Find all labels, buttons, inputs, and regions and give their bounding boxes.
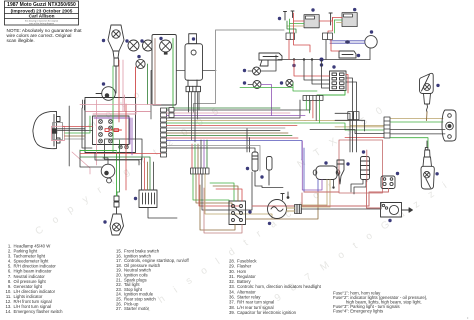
speedometer 4 (96, 87, 115, 101)
speedometer marker dot (102, 82, 105, 85)
wires from connector blocks down to bus (288, 40, 290, 60)
red plug lead vertical (366, 150, 368, 182)
lamp 2 parking light in emergency box (160, 40, 172, 54)
wire from box 33 bottom loop (148, 208, 177, 219)
instrument cluster box (85, 98, 136, 153)
wire red below cluster (80, 153, 161, 155)
svg-text:39.: 39. (229, 310, 235, 315)
wire dark green below cluster (80, 157, 150, 190)
svg-text:14.: 14. (6, 309, 12, 314)
ignition switch 16 box (229, 201, 246, 225)
purple wire from lamp2 (261, 85, 272, 116)
wire red vertical through cluster (125, 104, 127, 190)
headlamp connector block (53, 123, 63, 140)
purple wires to module (302, 141, 322, 190)
wires upper right region (272, 115, 306, 117)
wire from lamp1 right then down (261, 55, 277, 71)
wire pink vertical (122, 60, 124, 112)
pink box around plug (52, 126, 65, 140)
R/H rear turn signal 37 (420, 73, 434, 112)
rear stop switch plug 25 (339, 51, 356, 58)
wire pink verticals cluster (96, 100, 98, 165)
right connector strip (384, 117, 390, 138)
gray wire big run (194, 30, 285, 112)
wire pink diagonal lower (72, 152, 90, 174)
ground stub (287, 192, 289, 197)
connector plug top middle (259, 53, 282, 66)
squiggle lead down (426, 112, 429, 121)
L/H rear turn signal 38 (421, 141, 434, 189)
wire lamp stubs (248, 70, 253, 72)
wires dropping from controls connector (188, 92, 190, 112)
svg-text:Fuse“4”: Emergency lights: Fuse“4”: Emergency lights (333, 309, 383, 314)
drops to lower connector (191, 144, 193, 168)
indicator lamp panel (93, 116, 130, 145)
wire dark around cluster left (82, 108, 92, 148)
wires into ignition switch top (210, 183, 234, 201)
horn relay (left) (304, 15, 319, 28)
ignition module 24 (313, 166, 340, 180)
wire dark mid low (167, 148, 256, 152)
wires into horn relay (294, 20, 305, 22)
pink wire (86, 111, 150, 113)
starter relay 36 (381, 176, 395, 189)
starter motor 27 (381, 203, 413, 218)
cluster lower nested box (105, 139, 143, 160)
watermark (34, 87, 453, 315)
svg-text:1987 Moto Guzzi NTX350/650: 1987 Moto Guzzi NTX350/650 (7, 2, 76, 8)
relay terminal stubs (284, 11, 295, 20)
wires into relay 2 (333, 17, 343, 19)
alternator wires (287, 207, 295, 209)
lower horizontal connector strip (191, 168, 210, 174)
front brake switch 15 (key shape, top left) (108, 25, 124, 93)
loop wires around ignition switch (200, 185, 235, 230)
title block (5, 1, 79, 25)
headlamp plug (52, 128, 57, 133)
red wiring relays (294, 13, 311, 52)
terminal stub relay 2 (329, 13, 332, 25)
wire purple right of cluster (131, 118, 133, 155)
svg-text:scan of the factory diagram: scan of the factory diagram (29, 22, 54, 25)
module legs (255, 171, 262, 186)
fuseblock 28 (330, 71, 347, 91)
alternator connector (295, 205, 302, 214)
dark green vertical from lamp (147, 64, 149, 105)
emergency flasher switch 14 box (152, 35, 176, 106)
alternator 34 (268, 194, 287, 219)
red wires starter circuit (345, 189, 389, 207)
HT leads verticals (346, 78, 353, 152)
lamps in lower box (119, 145, 129, 149)
tail light bracket (442, 110, 456, 141)
connector block under relay2 (323, 33, 333, 40)
wires from fuse connector strip down to bus (305, 101, 307, 111)
red jumpers in cluster (105, 129, 122, 132)
wires into switch box 33 (141, 158, 143, 190)
headlamp 1 shell (33, 111, 60, 148)
big enclosure around handlebar area (151, 71, 216, 120)
svg-text:Emergency flasher switch: Emergency flasher switch (14, 309, 64, 314)
clutch lever switch (110, 196, 124, 235)
lamp 1 headlamp bulb symbol (136, 59, 145, 68)
wires below lower connector (193, 174, 229, 205)
connector strip below fuseblock (303, 96, 323, 101)
svg-text:Capacitor for electronic ignit: Capacitor for electronic ignition (237, 310, 297, 315)
wire dark drop to connector (198, 92, 200, 111)
wire green pair right of tach (117, 140, 120, 196)
lamp 12 R/H front turn signal (128, 40, 139, 51)
svg-text:27.: 27. (116, 306, 122, 311)
spark plug left 21 (337, 160, 344, 184)
green wrap wire (317, 91, 345, 96)
wire connector small boxes near bus start (169, 108, 174, 118)
green wire down to lower signal (391, 138, 429, 148)
flasher 29 (286, 79, 293, 86)
wire green below cluster (80, 150, 117, 152)
switch box 33 (139, 190, 157, 208)
marker dot 15 (102, 39, 105, 42)
wire dark into tach (80, 150, 102, 167)
wires to oil pressure switch (246, 129, 248, 153)
red vertical from lamp (135, 67, 137, 98)
ignition coil connector (348, 112, 359, 120)
oil pressure switch 18 (252, 152, 258, 171)
wire maroon inside box 14 (154, 39, 156, 105)
blue wires to horn (330, 40, 365, 42)
capacitor 39 (267, 157, 273, 186)
pink wire 2 (93, 104, 136, 114)
wire dark below cluster (95, 153, 139, 166)
indicator lamps 5-11 (99, 120, 113, 144)
wire long vertical at x69 (68, 106, 70, 166)
main harness bus (167, 96, 311, 110)
relay 2 (right) (342, 13, 357, 27)
wire green horizontal upper (240, 87, 293, 89)
left 9-pin connector strip (161, 108, 167, 157)
lamp 13 L/H front turn signal (143, 40, 154, 51)
lamps pair mid (generator/oil) (253, 67, 262, 89)
svg-text:Carl Allison: Carl Allison (29, 14, 55, 19)
svg-text:scan illegible.: scan illegible. (7, 38, 35, 43)
green wire to lever (116, 152, 118, 196)
red enclosure around pickup and coils (339, 140, 383, 193)
tail light 22 wires to right (305, 121, 384, 126)
note text (7, 28, 83, 43)
green wire from key area down (112, 66, 114, 152)
wire pink horizontal above cluster (80, 104, 161, 106)
red wire from key switch down (118, 60, 120, 122)
wires into fuseblock (294, 60, 330, 77)
purple wire across cluster (94, 118, 130, 144)
controls switch 17 housing (185, 34, 203, 92)
pick-up 26 (361, 157, 370, 180)
junction bus line (278, 59, 370, 61)
connector block under relay1 (286, 33, 295, 40)
tachometer 3 (101, 164, 115, 183)
wire tach links (103, 158, 108, 164)
wire gray mid (167, 146, 261, 172)
wires headlamp to cluster (58, 128, 86, 130)
pickup wires (351, 180, 363, 193)
wire green inside box 14 (172, 39, 174, 111)
wire dark pair above cluster (82, 100, 84, 108)
green wires relays (289, 19, 291, 33)
svg-text:this drawing is based on the o: this drawing is based on the original (25, 20, 59, 23)
svg-text:Starter motor: Starter motor (124, 306, 150, 311)
horn 30 (365, 36, 377, 48)
